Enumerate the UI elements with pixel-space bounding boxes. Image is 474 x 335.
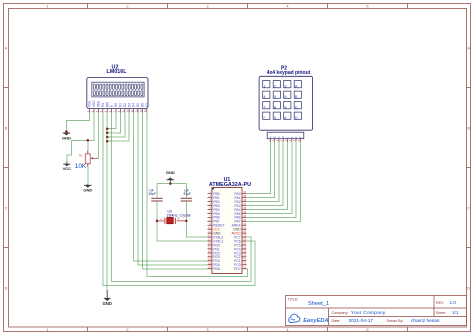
svg-text:Sheet:: Sheet: bbox=[436, 311, 447, 315]
LCD pin name labels VSS VDD VEE RS RW E D0-D7 bbox=[88, 100, 149, 107]
svg-text:PD6: PD6 bbox=[213, 267, 220, 271]
LCD pin numbers 1-14 bbox=[86, 109, 147, 112]
svg-text:GND: GND bbox=[62, 135, 71, 140]
svg-text:B: B bbox=[5, 126, 8, 131]
svg-text:A: A bbox=[295, 84, 298, 88]
wire pot top to VDD net bbox=[87, 140, 89, 151]
VCC power symbol bbox=[63, 161, 72, 171]
svg-text:Drawn By:: Drawn By: bbox=[387, 319, 404, 323]
wire crystal GND rail bbox=[157, 183, 186, 185]
svg-text:5: 5 bbox=[366, 327, 368, 332]
wire cap U4 top bbox=[156, 184, 158, 199]
MCU pin stubs left 1-20 right 40-21 bbox=[208, 194, 247, 269]
LCD display U2 LM016L bbox=[86, 65, 149, 113]
wire keypad pin 2 to MCU PA1 bbox=[246, 142, 274, 198]
svg-text:PD7: PD7 bbox=[234, 267, 241, 271]
svg-text:Company:: Company: bbox=[332, 311, 349, 315]
svg-text:3: 3 bbox=[206, 327, 208, 332]
keypad pin numbers 1-8 bbox=[268, 139, 301, 141]
wire LCD D0 to ground net bbox=[107, 113, 116, 129]
svg-text:5: 5 bbox=[366, 4, 368, 9]
MCU pin name labels bbox=[213, 192, 241, 271]
MCU pin numbers bbox=[208, 191, 247, 269]
wire cap U8 / crystal to XTAL2 bbox=[186, 201, 207, 237]
wire LCD VDD to VCC bbox=[67, 113, 94, 162]
potentiometer RV1 10K bbox=[75, 151, 99, 170]
svg-text:C: C bbox=[5, 206, 8, 211]
microcontroller U1 ATMEGA32A-PU bbox=[208, 177, 252, 274]
svg-text:A: A bbox=[268, 136, 272, 138]
svg-text:2021-04-17: 2021-04-17 bbox=[349, 318, 374, 324]
svg-text:Sheet_1: Sheet_1 bbox=[308, 301, 329, 307]
svg-text:A: A bbox=[5, 46, 8, 51]
svg-text:Your Company: Your Company bbox=[351, 310, 386, 316]
svg-text:1: 1 bbox=[46, 4, 48, 9]
wire LCD VEE to pot wiper bbox=[97, 113, 99, 159]
svg-text:VDD: VDD bbox=[92, 100, 96, 107]
svg-text:2: 2 bbox=[126, 4, 128, 9]
svg-text:3: 3 bbox=[206, 4, 208, 9]
svg-text:D5: D5 bbox=[136, 103, 140, 107]
svg-text:REV: REV bbox=[436, 301, 444, 305]
wire LCD RW to GND bbox=[106, 113, 108, 291]
svg-text:RW: RW bbox=[105, 102, 109, 107]
wire pot bottom to GND bbox=[87, 167, 89, 184]
svg-text:D3: D3 bbox=[127, 103, 131, 107]
wire LCD D1 to ground net bbox=[107, 113, 120, 133]
svg-text:D1: D1 bbox=[119, 103, 123, 107]
svg-text:D0: D0 bbox=[114, 103, 118, 107]
svg-text:RS: RS bbox=[101, 103, 105, 107]
svg-text:E: E bbox=[110, 105, 114, 107]
crystal U9 16MHz bbox=[159, 210, 191, 224]
title block bbox=[286, 296, 467, 326]
svg-text:2: 2 bbox=[126, 327, 128, 332]
wire LCD RS to MCU PC6 bbox=[103, 113, 255, 286]
ground symbol bottom (LCD RW / D0-D3) bbox=[103, 290, 112, 306]
svg-text:TITLE:: TITLE: bbox=[288, 298, 299, 302]
wire LCD D2 to ground net bbox=[107, 113, 125, 138]
svg-text:8: 8 bbox=[274, 105, 276, 109]
wire keypad pin 6 to MCU PA5 bbox=[246, 142, 291, 214]
capacitor U4 33pF bbox=[148, 189, 162, 202]
svg-text:D4: D4 bbox=[132, 103, 136, 107]
svg-text:ATMEGA32A-PU: ATMEGA32A-PU bbox=[209, 182, 251, 188]
LCD pin stubs 1-14 bbox=[90, 109, 147, 113]
wire LCD E to MCU PC7 bbox=[112, 113, 251, 282]
svg-text:1.0: 1.0 bbox=[450, 300, 457, 305]
svg-text:2: 2 bbox=[274, 84, 276, 88]
svg-text:B: B bbox=[467, 126, 470, 131]
svg-text:D7: D7 bbox=[145, 103, 149, 107]
svg-text:chamz hesan: chamz hesan bbox=[411, 318, 440, 324]
svg-text:D: D bbox=[467, 286, 470, 291]
ground symbol under potentiometer bbox=[83, 184, 92, 193]
wire cap U4 / crystal to XTAL1 bbox=[157, 201, 208, 241]
wire keypad pin 5 to MCU PA4 bbox=[246, 142, 287, 210]
svg-text:C: C bbox=[295, 105, 298, 109]
svg-text:1: 1 bbox=[263, 84, 265, 88]
svg-text:4x4 keypad pinout: 4x4 keypad pinout bbox=[267, 70, 311, 76]
wire keypad pin 3 to MCU PA2 bbox=[246, 142, 279, 202]
svg-text:B: B bbox=[273, 136, 277, 138]
wire keypad pin 1 to MCU PA0 bbox=[246, 142, 270, 194]
svg-text:D6: D6 bbox=[141, 103, 145, 107]
svg-text:C: C bbox=[277, 136, 281, 138]
svg-text:D: D bbox=[281, 136, 285, 138]
keypad pin stubs 1-8 bbox=[270, 139, 300, 142]
svg-text:1: 1 bbox=[46, 327, 48, 332]
svg-text:GND: GND bbox=[103, 301, 112, 306]
svg-text:GND: GND bbox=[166, 170, 175, 175]
svg-text:VCC: VCC bbox=[63, 166, 72, 171]
wire LCD D5 to MCU PD5 bbox=[138, 113, 208, 265]
svg-text:VEE: VEE bbox=[97, 101, 101, 107]
ground symbol near LCD VSS bbox=[62, 132, 71, 141]
junction dots bbox=[65, 127, 187, 222]
svg-text:33pF: 33pF bbox=[148, 192, 156, 196]
wire cap U8 top bbox=[185, 184, 187, 199]
wire keypad pin 7 to MCU PA6 bbox=[246, 142, 296, 218]
capacitor U8 33pF bbox=[181, 189, 192, 202]
svg-text:D2: D2 bbox=[123, 103, 127, 107]
svg-text:3: 3 bbox=[284, 84, 286, 88]
wire LCD D6 to MCU PD6 bbox=[142, 113, 207, 269]
svg-text:7: 7 bbox=[263, 105, 265, 109]
svg-text:B: B bbox=[295, 95, 298, 99]
svg-text:A: A bbox=[467, 46, 470, 51]
svg-text:0: 0 bbox=[274, 116, 276, 120]
svg-text:EasyEDA: EasyEDA bbox=[303, 318, 328, 324]
wire LCD VSS to GND bbox=[66, 113, 89, 132]
svg-text:D: D bbox=[295, 116, 298, 120]
svg-text:5: 5 bbox=[274, 95, 276, 99]
svg-text:D: D bbox=[5, 286, 8, 291]
svg-text:GND: GND bbox=[83, 188, 92, 193]
svg-text:16MHz_Crystal: 16MHz_Crystal bbox=[167, 213, 191, 217]
svg-text:9: 9 bbox=[284, 105, 286, 109]
keypad P2 4x4 keypad pinout bbox=[259, 65, 313, 141]
svg-text:6: 6 bbox=[284, 95, 286, 99]
wire LCD D7 to MCU PD7 bbox=[147, 113, 248, 277]
svg-text:Date:: Date: bbox=[332, 319, 341, 323]
svg-text:LM016L: LM016L bbox=[106, 69, 127, 75]
svg-text:4: 4 bbox=[263, 95, 265, 99]
svg-text:R1: R1 bbox=[79, 154, 83, 158]
wire LCD D4 to MCU PD4 bbox=[134, 113, 208, 261]
EasyEDA logo bbox=[289, 314, 329, 324]
svg-text:33pF: 33pF bbox=[183, 192, 191, 196]
svg-text:1/1: 1/1 bbox=[452, 310, 459, 315]
svg-text:VSS: VSS bbox=[88, 101, 92, 107]
wire keypad pin 8 to MCU PA7 bbox=[246, 142, 300, 222]
wire LCD D3 to ground net bbox=[107, 113, 129, 142]
svg-text:C: C bbox=[467, 206, 470, 211]
ground symbol above crystal (inverted) bbox=[166, 170, 175, 184]
wire keypad pin 4 to MCU PA3 bbox=[246, 142, 283, 206]
